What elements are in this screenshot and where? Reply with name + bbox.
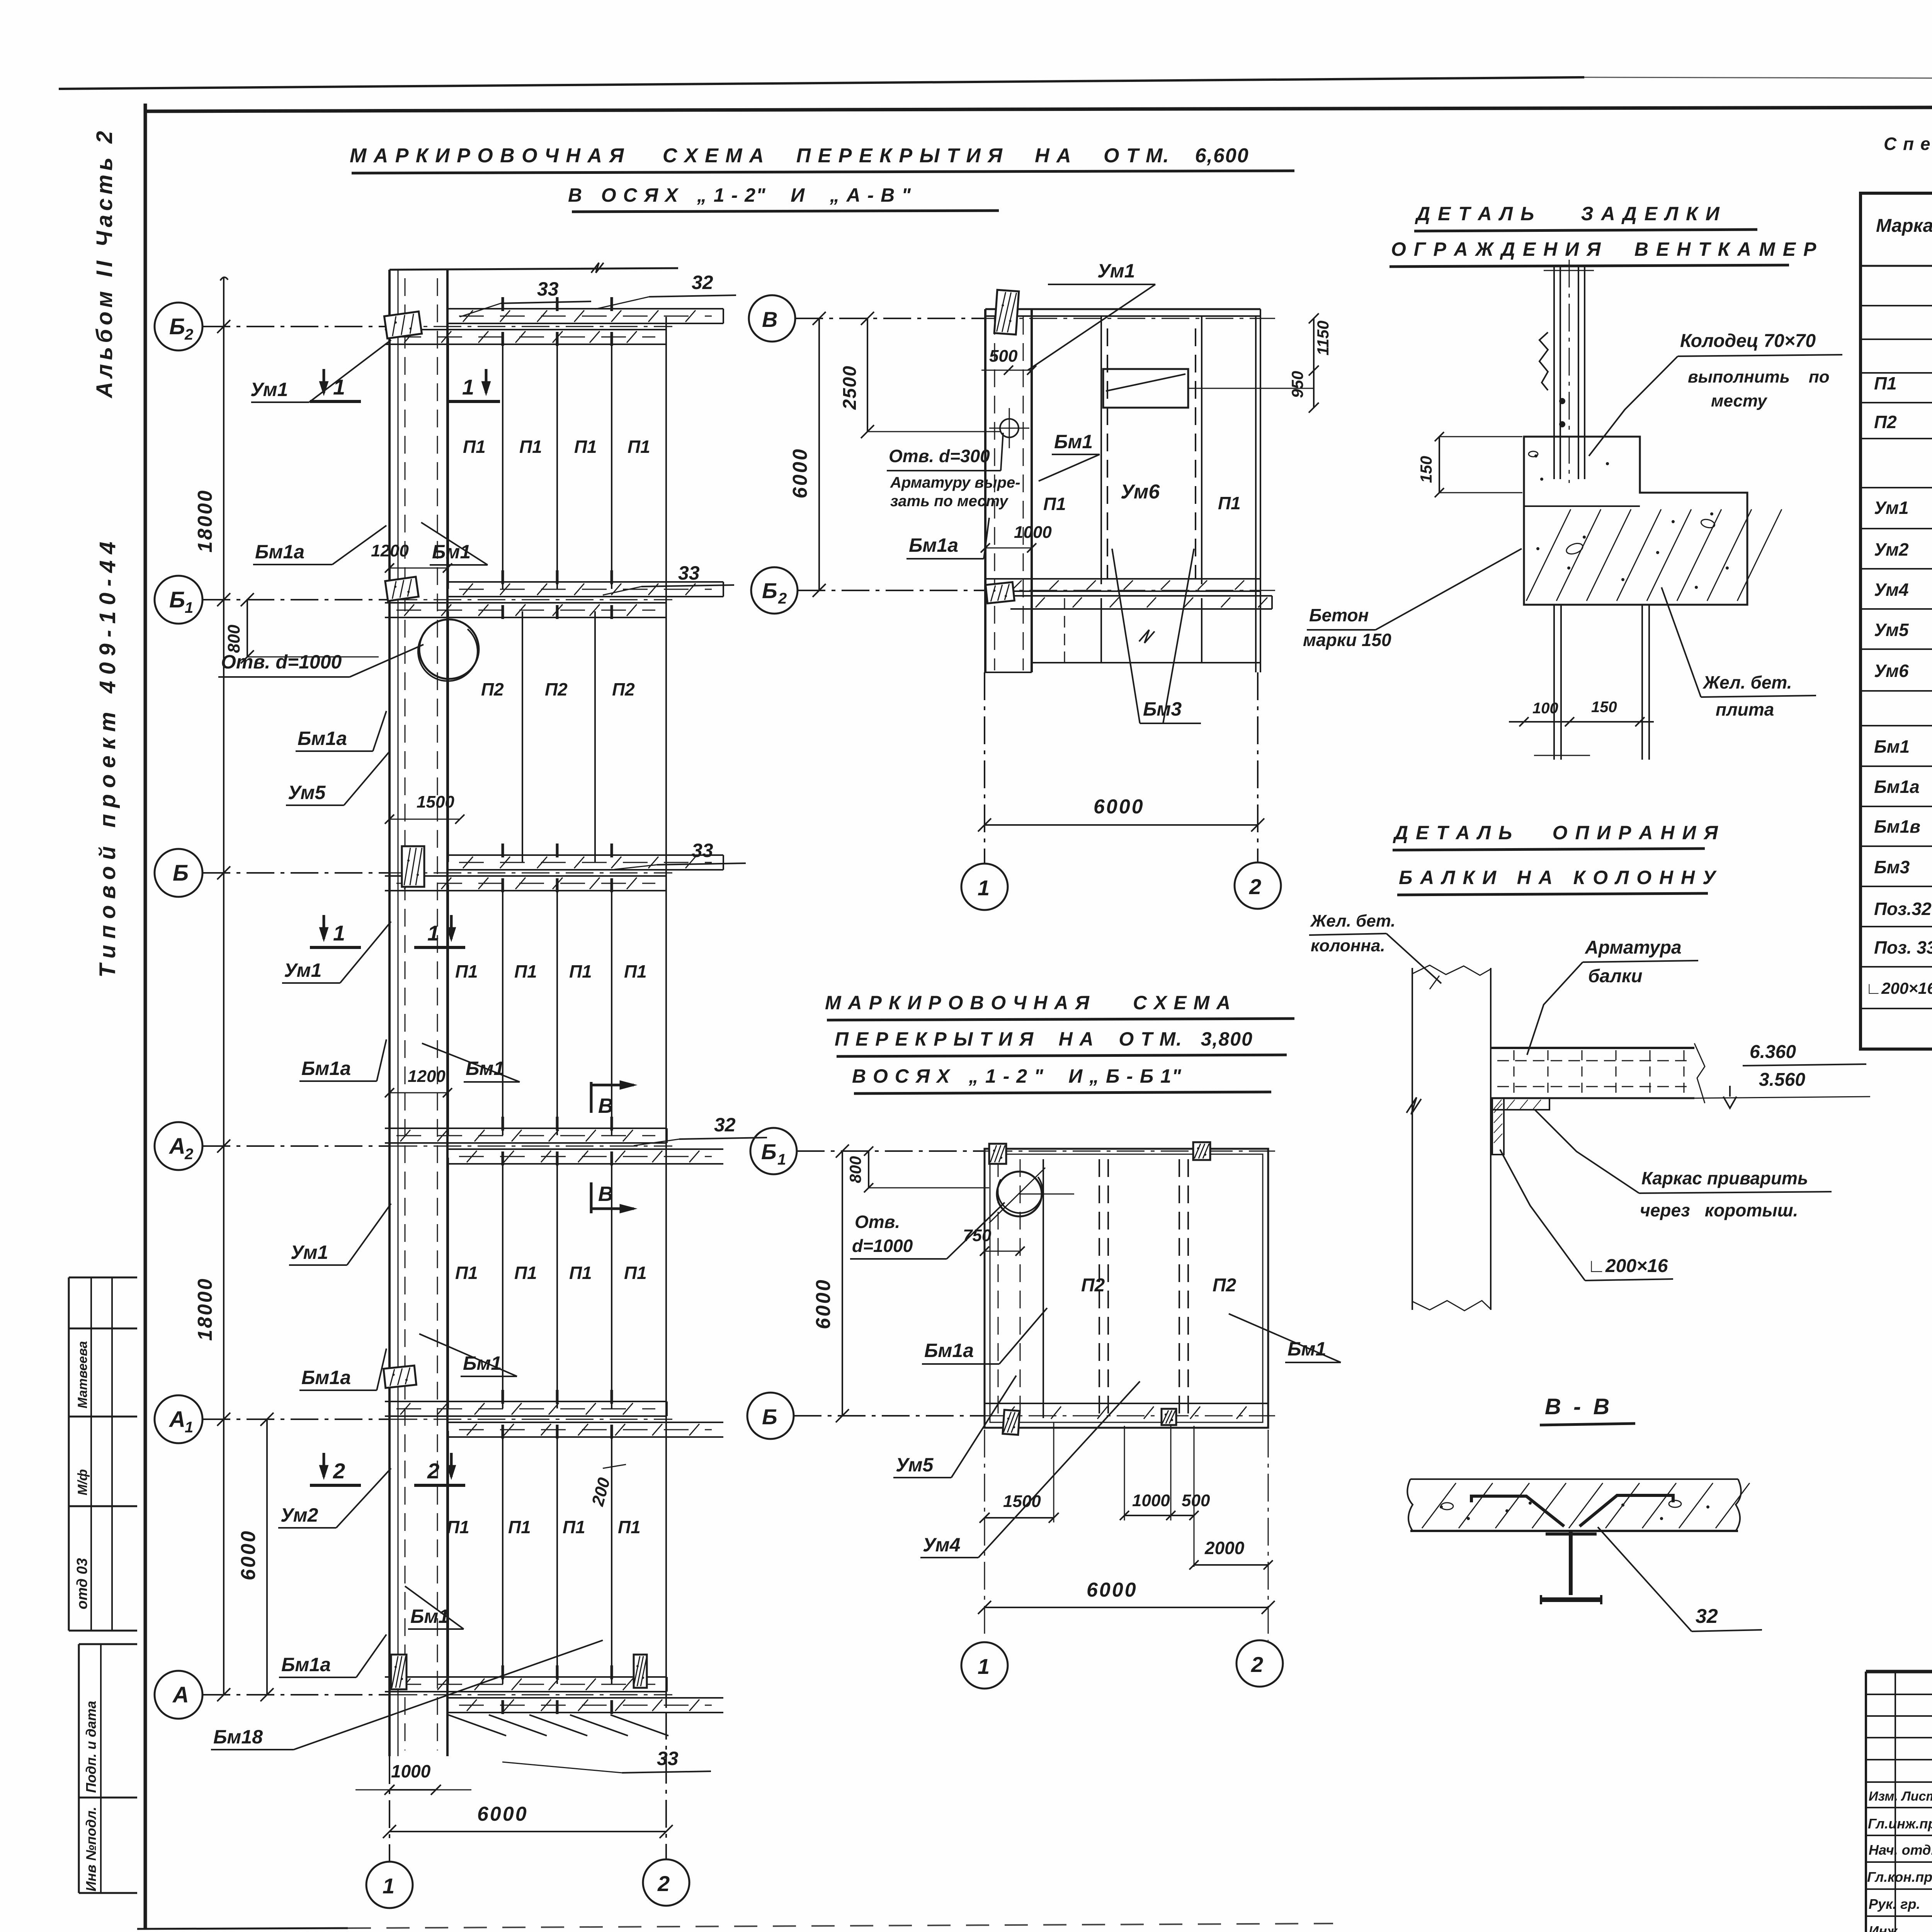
svg-text:33: 33 [657, 1748, 679, 1769]
svg-text:П2: П2 [481, 679, 504, 699]
svg-text:2000: 2000 [1204, 1538, 1245, 1558]
detail1 stipple [1534, 454, 1537, 457]
detail2 beam [1491, 1047, 1694, 1049]
svg-text:Ум5: Ум5 [896, 1454, 934, 1476]
svg-text:150: 150 [1591, 699, 1617, 716]
svg-text:18000: 18000 [194, 1277, 216, 1341]
svg-text:d=1000: d=1000 [852, 1236, 913, 1256]
svg-text:1: 1 [185, 1419, 193, 1436]
plan1 bottom hatching below row А [448, 1715, 506, 1736]
svg-text:∟200×16: ∟200×16 [1587, 1256, 1668, 1276]
svg-text:Б А Л К И Н А К О Л О Н Н: Б А Л К И Н А К О Л О Н Н У [1399, 867, 1717, 888]
svg-text:выполнить по: выполнить по [1688, 367, 1830, 386]
svg-text:С п е ц и ф и к а ц и я э л: С п е ц и ф и к а ц и я э л е м е н т о … [1884, 134, 1932, 154]
plan2 bottom beam band at Б2 (staggered) [985, 578, 1260, 580]
plan3 П2 panel dashed dividers [1099, 1159, 1100, 1418]
svg-text:Бм1а: Бм1а [301, 1367, 351, 1388]
plan1 hole Отв d=1000 [419, 619, 479, 679]
svg-text:Ум1: Ум1 [291, 1242, 328, 1263]
svg-text:Каркас приварить: Каркас приварить [1641, 1168, 1808, 1188]
drawing frame left border [144, 104, 147, 1929]
svg-text:Бм3: Бм3 [1874, 857, 1910, 877]
svg-text:Жел. бет.: Жел. бет. [1310, 912, 1396, 930]
svg-text:Ум4: Ум4 [923, 1534, 960, 1556]
plan2 wall verticals [984, 309, 986, 672]
svg-text:Поз.32: Поз.32 [1874, 899, 1932, 919]
plan3 beam band at Б [985, 1403, 1268, 1404]
svg-text:6.360: 6.360 [1750, 1042, 1796, 1062]
plan1 dim 6000 (А1-А) [266, 1419, 268, 1695]
svg-text:П1: П1 [574, 437, 597, 457]
svg-text:2500: 2500 [840, 365, 860, 410]
svg-text:Бм1: Бм1 [1874, 736, 1910, 757]
plan2 Ум6 dashed borders [1107, 328, 1108, 580]
svg-text:П1: П1 [514, 1263, 537, 1283]
svg-text:33: 33 [692, 840, 713, 861]
svg-text:1: 1 [777, 1151, 786, 1168]
svg-text:Бм1а: Бм1а [255, 541, 304, 563]
plan1 bottom axis circles 1 and 2 [389, 1756, 390, 1862]
plan2 column monolith rects [994, 290, 1019, 335]
svg-text:Арматуру выре-: Арматуру выре- [890, 474, 1020, 491]
svg-text:950: 950 [1288, 371, 1306, 398]
svg-text:1: 1 [462, 375, 474, 399]
grid circle А1 (plan1) [155, 1395, 202, 1443]
svg-text:П1: П1 [563, 1517, 585, 1537]
svg-text:Бм1: Бм1 [410, 1605, 449, 1627]
svg-text:Бм1а: Бм1а [301, 1058, 351, 1079]
svg-text:1200: 1200 [371, 541, 409, 560]
section I-beam [1569, 1531, 1573, 1595]
svg-text:1500: 1500 [1003, 1492, 1041, 1511]
svg-text:А: А [168, 1407, 185, 1432]
svg-text:33: 33 [537, 278, 559, 300]
axis line А (plan1) [202, 1694, 389, 1696]
svg-text:Бм1а: Бм1а [298, 728, 347, 749]
svg-text:П1: П1 [1874, 373, 1897, 393]
svg-text:Инж.: Инж. [1869, 1923, 1901, 1932]
svg-text:32: 32 [714, 1114, 736, 1136]
sheet top edge line [59, 77, 1584, 89]
svg-text:марки 150: марки 150 [1303, 630, 1391, 650]
svg-text:Бм1а: Бм1а [909, 534, 958, 556]
svg-text:Ум6: Ум6 [1121, 481, 1160, 503]
plan3 wall dashed lines (left strip) [998, 1159, 999, 1418]
svg-text:32: 32 [692, 272, 713, 293]
svg-text:зать по месту: зать по месту [890, 493, 1009, 510]
svg-text:Типовой проект 409-10-44: Типовой проект 409-10-44 [95, 536, 120, 978]
svg-text:Ум1: Ум1 [250, 379, 288, 400]
detail1 post profile zigzag [1539, 332, 1548, 390]
axis line А1 (plan1) [202, 1418, 389, 1420]
svg-text:∟200×16: ∟200×16 [1866, 979, 1932, 997]
svg-text:2: 2 [184, 1146, 193, 1163]
detail2 corner angle [1492, 1098, 1549, 1110]
svg-text:П2: П2 [545, 679, 568, 699]
svg-text:Б: Б [762, 1405, 777, 1429]
svg-text:Нач. отд.: Нач. отд. [1869, 1842, 1932, 1858]
svg-text:Ум4: Ум4 [1874, 580, 1909, 600]
svg-text:Бм1а: Бм1а [281, 1654, 331, 1675]
svg-text:33: 33 [678, 562, 700, 584]
svg-text:А: А [168, 1134, 185, 1159]
svg-text:Ум5: Ум5 [1874, 620, 1909, 640]
grid circle А2 (plan1) [155, 1122, 202, 1170]
plan2 dim 6000 vertical [818, 318, 820, 590]
plan1 vertical dimension line 18000 [223, 277, 224, 1695]
plan1 wall vertical lines [388, 270, 391, 1756]
grid circle Б2 (plan1) [155, 303, 202, 350]
grid circle Б1 (plan1) [155, 576, 202, 624]
svg-text:Бм1а: Бм1а [924, 1340, 974, 1361]
plan3 outer double border [985, 1149, 1268, 1428]
plan1 monolith column marks at wall [384, 311, 422, 338]
svg-text:1: 1 [978, 876, 990, 900]
svg-text:1: 1 [427, 921, 439, 945]
svg-text:П1: П1 [508, 1517, 531, 1537]
svg-text:Бм18: Бм18 [213, 1726, 263, 1748]
sidebar table upper [69, 1277, 137, 1279]
plan3 axis lines [797, 1150, 985, 1152]
svg-text:П1: П1 [624, 961, 647, 981]
svg-text:1200: 1200 [408, 1067, 446, 1086]
svg-text:2: 2 [427, 1459, 439, 1483]
detail1 below-slab walls [1553, 605, 1555, 760]
svg-text:6000: 6000 [477, 1803, 528, 1825]
plan2 panel verticals [1031, 316, 1032, 584]
svg-text:П1: П1 [463, 437, 486, 457]
svg-text:П1: П1 [1218, 493, 1241, 513]
plan1 beam bands at grid rows (double staggered) [447, 308, 723, 310]
section hatch [1422, 1483, 1456, 1528]
svg-text:2: 2 [1251, 1652, 1263, 1677]
svg-text:П1: П1 [628, 437, 650, 457]
svg-text:2: 2 [778, 590, 787, 607]
svg-text:Подп. и дата: Подп. и дата [83, 1701, 99, 1793]
svg-text:3.560: 3.560 [1759, 1070, 1805, 1090]
plan2 bottom axis circles 1 2 [984, 672, 985, 864]
svg-text:500: 500 [989, 347, 1018, 366]
svg-text:6000: 6000 [789, 447, 811, 498]
plan2 right dims 1150 950 [1313, 318, 1315, 408]
plan2 hole d=300 [1000, 419, 1019, 437]
plan2 dim 2500 [867, 318, 868, 432]
svg-text:Бм1: Бм1 [1054, 431, 1093, 452]
svg-text:6000: 6000 [1094, 796, 1145, 818]
svg-text:балки: балки [1588, 966, 1643, 986]
svg-text:Бм1а: Бм1а [1874, 777, 1920, 797]
svg-text:П1: П1 [514, 961, 537, 981]
svg-text:колонна.: колонна. [1311, 936, 1385, 955]
svg-text:Бетон: Бетон [1309, 605, 1369, 625]
svg-text:Поз. 33: Поз. 33 [1874, 937, 1932, 957]
svg-text:Д Е Т А Л Ь О П И Р А Н И: Д Е Т А Л Ь О П И Р А Н И Я [1393, 822, 1719, 844]
plan2 top beam band [985, 308, 1260, 310]
plan3 monolith rects [989, 1144, 1006, 1164]
svg-text:Арматура: Арматура [1585, 937, 1682, 958]
svg-text:750: 750 [963, 1226, 992, 1245]
svg-text:Ум1: Ум1 [284, 959, 321, 981]
svg-text:2: 2 [333, 1459, 345, 1483]
drawing frame bottom border [137, 1928, 348, 1929]
svg-text:Ум2: Ум2 [1874, 539, 1909, 560]
svg-text:через коротыш.: через коротыш. [1640, 1200, 1798, 1220]
svg-text:2: 2 [184, 326, 193, 343]
detail1 slab hatch [1526, 509, 1571, 601]
axis line Б2 (plan1) [202, 326, 389, 327]
svg-text:Б: Б [173, 861, 189, 886]
grid circle Б (plan1) [155, 849, 202, 897]
svg-text:П1: П1 [624, 1263, 647, 1283]
svg-text:800: 800 [846, 1156, 864, 1183]
svg-text:1: 1 [383, 1874, 395, 1898]
svg-text:100: 100 [1532, 700, 1558, 717]
plan1 dim 800 below Б1 [247, 600, 248, 657]
svg-text:Отв. d=300: Отв. d=300 [889, 446, 990, 466]
svg-text:П2: П2 [1213, 1275, 1236, 1296]
svg-text:М А Р К И Р О В О Ч Н А Я: М А Р К И Р О В О Ч Н А Я С Х Е М А П Е … [350, 145, 1249, 167]
grid circle А (plan1) [155, 1671, 202, 1719]
svg-text:1000: 1000 [1132, 1491, 1170, 1510]
axis line Б1 (plan1) [202, 599, 389, 600]
svg-text:Бм1в: Бм1в [1874, 816, 1920, 837]
section anchor bars [1471, 1496, 1564, 1526]
svg-text:В: В [598, 1182, 613, 1206]
svg-text:Марка: Марка [1876, 216, 1932, 236]
svg-text:В О С Я Х „ 1 - 2 " И „: В О С Я Х „ 1 - 2 " И „ Б - Б 1" [852, 1065, 1182, 1087]
section stipple [1440, 1505, 1443, 1509]
svg-text:П1: П1 [569, 961, 592, 981]
svg-text:В О С Я Х „ 1 - 2" И: В О С Я Х „ 1 - 2" И „ А - В " [568, 184, 912, 206]
svg-text:1500: 1500 [417, 793, 454, 811]
svg-text:2: 2 [1249, 874, 1261, 899]
svg-text:1000: 1000 [391, 1761, 431, 1781]
plan1 panel vertical lines [447, 338, 449, 589]
svg-text:Б: Б [169, 587, 185, 612]
svg-text:Колодец 70×70: Колодец 70×70 [1680, 331, 1816, 351]
svg-text:Альбом II Часть 2: Альбом II Часть 2 [92, 127, 117, 399]
plan2 below Б2 panels [1031, 598, 1032, 663]
axis line Б (plan1) [202, 872, 389, 874]
svg-text:П Е Р Е К Р Ы Т И Я Н А: П Е Р Е К Р Ы Т И Я Н А О Т М. 3,800 [835, 1028, 1253, 1050]
svg-text:П1: П1 [455, 961, 478, 981]
svg-text:1: 1 [185, 599, 193, 616]
axis line А2 (plan1) [202, 1145, 389, 1147]
svg-text:Рук. гр.: Рук. гр. [1869, 1896, 1920, 1912]
svg-text:Гл.инж.пр.: Гл.инж.пр. [1868, 1816, 1932, 1832]
svg-text:П1: П1 [569, 1263, 592, 1283]
svg-text:П1: П1 [519, 437, 542, 457]
svg-text:32: 32 [1696, 1605, 1718, 1628]
svg-text:Ум6: Ум6 [1874, 661, 1909, 681]
svg-text:1000: 1000 [1014, 523, 1052, 542]
svg-text:1: 1 [333, 375, 345, 399]
plan2 axis lines [795, 318, 985, 319]
svg-text:П1: П1 [447, 1517, 469, 1537]
svg-text:П1: П1 [455, 1263, 478, 1283]
svg-text:800: 800 [224, 624, 243, 653]
svg-text:6000: 6000 [1087, 1579, 1138, 1601]
svg-text:М/ф: М/ф [75, 1469, 90, 1495]
title block left table rows [1866, 1694, 1932, 1695]
svg-text:П1: П1 [618, 1517, 641, 1537]
svg-text:А: А [172, 1682, 189, 1708]
svg-text:В: В [762, 307, 777, 332]
plan1 section marks В (right) [590, 1082, 593, 1113]
svg-text:В: В [598, 1094, 613, 1117]
plan3 dim 6000 vertical [842, 1151, 843, 1416]
svg-text:2: 2 [657, 1871, 670, 1896]
svg-text:Инв №подл.: Инв №подл. [83, 1807, 99, 1891]
svg-text:В - В: В - В [1545, 1394, 1612, 1419]
svg-text:Бм3: Бм3 [1143, 698, 1182, 720]
svg-text:Бм1: Бм1 [432, 541, 471, 563]
svg-text:Гл.кон.пр.: Гл.кон.пр. [1867, 1869, 1932, 1885]
svg-text:Б: Б [169, 314, 185, 339]
detail1 fence posts [1553, 266, 1555, 479]
svg-text:Отв.: Отв. [855, 1212, 900, 1232]
sidebar table lower [79, 1643, 137, 1645]
svg-text:Отв. d=1000: Отв. d=1000 [221, 651, 342, 673]
title block left table verticals [1895, 1672, 1896, 1932]
detail1 parapet block [1524, 437, 1747, 605]
svg-text:6000: 6000 [237, 1529, 260, 1580]
svg-text:1150: 1150 [1314, 321, 1332, 355]
svg-text:Ум2: Ум2 [281, 1504, 318, 1526]
plan2: grid circles В and Б2 [749, 295, 795, 342]
spec table frame [1861, 193, 1932, 1049]
plan3 hole d=1000 [997, 1172, 1042, 1216]
plan1 section marks 1-1 upper [323, 369, 325, 393]
svg-text:О Г Р А Ж Д Е Н И Я В Е Н: О Г Р А Ж Д Е Н И Я В Е Н Т К А М Е Р [1391, 238, 1817, 260]
plan3 dim 800 [868, 1151, 869, 1188]
plan3 axis circles 1 2 [961, 1642, 1008, 1689]
plan2 window opening in Ум6 [1103, 369, 1188, 408]
svg-text:Ум1: Ум1 [1097, 260, 1135, 282]
svg-text:150: 150 [1417, 456, 1435, 483]
svg-text:Ум5: Ум5 [288, 782, 326, 803]
svg-text:месту: месту [1711, 391, 1768, 410]
svg-text:П1: П1 [1043, 494, 1066, 514]
svg-text:Ум1: Ум1 [1874, 498, 1909, 518]
svg-text:П2: П2 [1081, 1275, 1105, 1296]
svg-text:500: 500 [1182, 1491, 1210, 1510]
svg-text:Д Е Т А Л Ь З А Д Е Л К: Д Е Т А Л Ь З А Д Е Л К И [1415, 203, 1721, 224]
svg-text:плита: плита [1716, 699, 1774, 719]
svg-text:Жел. бет.: Жел. бет. [1702, 672, 1792, 692]
svg-text:Изм. Лист: Изм. Лист [1869, 1789, 1932, 1804]
svg-text:6000: 6000 [812, 1278, 835, 1329]
detail2 column [1412, 968, 1413, 1310]
svg-text:18000: 18000 [194, 489, 216, 553]
spec table header row [1861, 265, 1932, 267]
svg-text:П2: П2 [612, 679, 635, 699]
svg-text:Матвеева: Матвеева [75, 1341, 90, 1408]
svg-text:1: 1 [978, 1654, 990, 1679]
svg-text:1: 1 [333, 921, 345, 945]
svg-text:Б: Б [761, 1139, 777, 1164]
title block outer [1866, 1670, 1932, 1673]
svg-text:Б: Б [762, 578, 777, 603]
svg-text:М А Р К И Р О В О Ч Н А Я: М А Р К И Р О В О Ч Н А Я С Х Е М А [825, 992, 1231, 1014]
plan1 top edge [389, 268, 678, 270]
drawing frame top border [145, 107, 1932, 111]
svg-text:отд 03: отд 03 [74, 1558, 90, 1609]
svg-text:П2: П2 [1874, 412, 1897, 432]
plan3 grid circles Б1 Б [750, 1128, 797, 1174]
section B-B slab [1410, 1478, 1738, 1480]
